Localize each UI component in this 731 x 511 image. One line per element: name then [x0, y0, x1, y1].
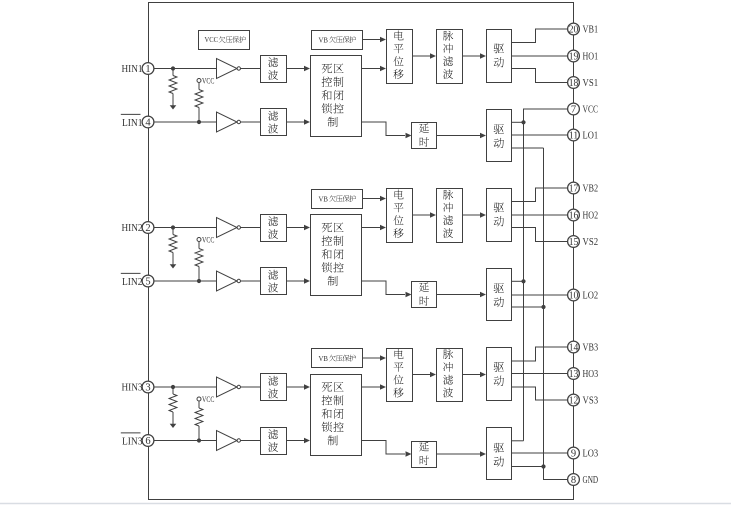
pin LO2 (pin 10)	[568, 289, 580, 301]
svg-text:18: 18	[569, 78, 579, 89]
wire buffer to filter ch2 high	[241, 227, 261, 229]
wire GND rail to pin 8	[544, 148, 568, 480]
pin VS2 (pin 15)	[568, 236, 580, 248]
wire filter to deadtime block ch2 high	[286, 227, 304, 229]
wire LIN3 pin to buffer	[148, 440, 217, 442]
block delay 延时 ch1	[412, 123, 437, 149]
wire pulse filter to high-side driver ch1	[462, 55, 480, 57]
svg-text:14: 14	[569, 343, 579, 354]
ground arrow HIN1 pull-down	[170, 105, 177, 109]
svg-text:VCC: VCC	[205, 35, 219, 44]
node junction on HIN2 wire	[171, 225, 175, 229]
wire delay to low-side driver ch3	[437, 453, 481, 455]
wire low driver to GND rail ch2	[512, 306, 544, 308]
block pulse filter 脉冲滤波 ch3	[437, 349, 463, 402]
wire buffer to filter ch3 low	[241, 440, 261, 442]
wire driver to VB3 pin	[512, 347, 568, 361]
svg-text:10: 10	[569, 291, 579, 302]
svg-text:15: 15	[569, 237, 579, 248]
pin VB2 (pin 17)	[568, 182, 580, 194]
svg-text:1: 1	[145, 64, 150, 75]
wire low driver to VCC rail ch3	[512, 440, 524, 442]
pin HIN2 (pin 2)	[142, 222, 154, 234]
wire buffer to filter ch1 high	[241, 68, 261, 70]
wire deadtime to delay ch3	[361, 441, 405, 455]
block filter 滤波 ch3 high	[261, 374, 287, 401]
wire level shifter to pulse filter ch2	[412, 214, 430, 216]
wire low driver to LO2 pin	[512, 294, 568, 296]
block deadtime+interlock 死区控制和闭锁控制 ch2	[311, 215, 362, 296]
wire filter to deadtime block ch2 low	[286, 280, 304, 282]
wire driver to HO3 pin	[512, 373, 568, 375]
pin LO1 (pin 11)	[568, 129, 580, 141]
VCC pull-up terminal ch2	[197, 238, 201, 242]
wire delay to low-side driver ch2	[437, 294, 481, 296]
svg-text:VB: VB	[319, 354, 329, 363]
block filter 滤波 ch1 low	[261, 109, 287, 136]
block VB undervoltage protection VB欠压保护 ch3	[312, 349, 363, 368]
svg-text:VCC: VCC	[202, 77, 214, 86]
buffer U1B (LIN1 schmitt inverter)	[217, 112, 238, 132]
wire HIN3 pin to buffer	[148, 386, 217, 388]
svg-text:VB: VB	[319, 35, 329, 44]
wire driver to VS1 pin	[512, 69, 568, 83]
block filter 滤波 ch1 high	[261, 56, 287, 83]
pin LIN2 (pin 5) with overline	[142, 275, 154, 287]
block level shifter 电平位移 ch3	[387, 349, 413, 402]
block delay 延时 ch3	[412, 442, 437, 468]
ground arrow HIN3 pull-down	[170, 424, 177, 428]
wire LIN1 pin to buffer	[148, 121, 217, 123]
pin HIN3 (pin 3)	[142, 381, 154, 393]
block VB undervoltage protection VB欠压保护 ch1	[312, 31, 363, 50]
wire HIN2 pin to buffer	[148, 227, 217, 229]
wire buffer to filter ch2 low	[241, 280, 261, 282]
wire low driver to VCC rail ch2	[512, 280, 524, 282]
wire level shifter to pulse filter ch3	[412, 374, 430, 376]
pin VCC (pin 7)	[568, 103, 580, 115]
svg-text:HO1: HO1	[583, 52, 599, 63]
block pulse filter 脉冲滤波 ch1	[437, 30, 463, 84]
wire VCC rail from pin 7	[524, 109, 568, 441]
svg-text:HIN3: HIN3	[122, 383, 143, 394]
svg-text:VB3: VB3	[583, 343, 599, 354]
wire level shifter to pulse filter ch1	[412, 55, 430, 57]
resistor pull-down on HIN1	[172, 69, 174, 76]
pin LIN1 (pin 4) with overline	[142, 116, 154, 128]
wire low driver to LO3 pin	[512, 452, 568, 454]
VCC pull-up terminal ch3	[197, 397, 201, 401]
svg-text:VCC: VCC	[202, 236, 214, 245]
svg-text:VS2: VS2	[583, 237, 599, 248]
pin VB1 (pin 20)	[568, 23, 580, 35]
block low-side driver 驱动 ch1 low	[487, 110, 512, 162]
node junction on HIN3 wire	[171, 385, 175, 389]
svg-text:2: 2	[145, 223, 150, 234]
resistor pull-up to VCC ch2	[198, 242, 200, 249]
pin GND (pin 8)	[568, 474, 580, 486]
wire pulse filter to high-side driver ch2	[462, 214, 480, 216]
wire deadtime to delay ch1	[361, 122, 405, 136]
pin VS3 (pin 12)	[568, 394, 580, 406]
wire pulse filter to high-side driver ch3	[462, 374, 480, 376]
svg-text:LO1: LO1	[583, 131, 599, 142]
svg-text:LIN2: LIN2	[122, 277, 143, 288]
svg-text:3: 3	[145, 383, 150, 394]
wire deadtime to level shifter ch1	[361, 68, 380, 70]
svg-text:5: 5	[145, 277, 150, 288]
resistor pull-up to VCC ch1	[198, 83, 200, 90]
wire driver to VB1 pin	[512, 29, 568, 43]
svg-text:8: 8	[571, 475, 576, 486]
wire filter to deadtime block ch3 high	[286, 386, 304, 388]
buffer U3B (LIN3 schmitt inverter)	[217, 431, 238, 451]
resistor pull-up to VCC ch3	[198, 401, 200, 408]
wire driver to VB2 pin	[512, 188, 568, 202]
buffer U2A (HIN2 schmitt inverter)	[217, 218, 238, 238]
svg-text:VS1: VS1	[583, 78, 599, 89]
wire low driver to VCC rail ch1	[512, 121, 524, 123]
node junction on LIN3 wire	[197, 438, 201, 442]
svg-text:19: 19	[569, 52, 579, 63]
svg-text:HO3: HO3	[583, 369, 599, 380]
svg-text:GND: GND	[583, 475, 599, 486]
block high-side driver 驱动 ch1	[487, 30, 512, 83]
block VCC undervoltage protection (VCC欠压保护)	[199, 31, 250, 50]
svg-text:17: 17	[569, 184, 579, 195]
svg-text:9: 9	[571, 449, 576, 460]
VCC pull-up terminal ch1	[197, 79, 201, 83]
block deadtime+interlock 死区控制和闭锁控制 ch1	[311, 56, 362, 137]
block high-side driver 驱动 ch2	[487, 189, 512, 242]
wire filter to deadtime block ch1 high	[286, 68, 304, 70]
node junction on HIN1 wire	[171, 66, 175, 70]
pin HIN1 (pin 1)	[142, 63, 154, 75]
block level shifter 电平位移 ch2	[387, 189, 413, 243]
buffer U3A (HIN3 schmitt inverter)	[217, 377, 238, 397]
resistor pull-down on HIN3	[172, 387, 174, 394]
block delay 延时 ch2	[412, 282, 437, 308]
footer separator line	[0, 503, 731, 505]
svg-text:6: 6	[145, 436, 150, 447]
IC outline rectangle	[149, 3, 574, 500]
pin VS1 (pin 18)	[568, 77, 580, 89]
buffer U1A (HIN1 schmitt inverter)	[217, 59, 238, 79]
svg-text:16: 16	[569, 211, 579, 222]
svg-text:LO2: LO2	[583, 291, 599, 302]
wire buffer to filter ch3 high	[241, 386, 261, 388]
svg-text:VCC: VCC	[583, 105, 599, 116]
pin LO3 (pin 9)	[568, 447, 580, 459]
wire driver to VS3 pin	[512, 387, 568, 400]
node junction on LIN2 wire	[197, 279, 201, 283]
svg-text:7: 7	[571, 105, 576, 116]
wire buffer to filter ch1 low	[241, 121, 261, 123]
wire deadtime to level shifter ch3	[361, 386, 380, 388]
svg-text:LO3: LO3	[583, 449, 599, 460]
svg-text:HIN1: HIN1	[122, 64, 143, 75]
svg-text:13: 13	[569, 369, 579, 380]
node junction on LIN1 wire	[197, 120, 201, 124]
pin LIN3 (pin 6) with overline	[142, 435, 154, 447]
svg-text:VB2: VB2	[583, 184, 599, 195]
block low-side driver 驱动 ch2 low	[487, 269, 512, 321]
wire delay to low-side driver ch1	[437, 135, 481, 137]
pin HO3 (pin 13)	[568, 368, 580, 380]
pin HO2 (pin 16)	[568, 209, 580, 221]
wire deadtime to delay ch2	[361, 281, 405, 295]
block low-side driver 驱动 ch3 low	[487, 428, 512, 480]
wire filter to deadtime block ch3 low	[286, 440, 304, 442]
svg-text:4: 4	[145, 118, 151, 129]
svg-text:VB: VB	[319, 194, 329, 203]
wire HIN1 pin to buffer	[148, 68, 217, 70]
wire low driver to LO1 pin	[512, 134, 568, 136]
block deadtime+interlock 死区控制和闭锁控制 ch3	[311, 375, 362, 456]
svg-text:HO2: HO2	[583, 211, 599, 222]
wire filter to deadtime block ch1 low	[286, 121, 304, 123]
wire LIN2 pin to buffer	[148, 280, 217, 282]
block VB undervoltage protection VB欠压保护 ch2	[312, 190, 363, 209]
svg-text:11: 11	[569, 131, 579, 142]
svg-text:LIN3: LIN3	[122, 436, 143, 447]
svg-text:12: 12	[569, 396, 579, 407]
wire deadtime to level shifter ch2	[361, 227, 380, 229]
svg-text:VCC: VCC	[202, 395, 214, 404]
block pulse filter 脉冲滤波 ch2	[437, 189, 463, 243]
block filter 滤波 ch3 low	[261, 428, 287, 455]
wire VB-UV to level shifter ch1	[362, 39, 380, 41]
svg-text:VS3: VS3	[583, 396, 599, 407]
block level shifter 电平位移 ch1	[387, 30, 413, 84]
svg-text:LIN1: LIN1	[122, 118, 143, 129]
wire VB-UV to level shifter ch3	[362, 357, 380, 359]
svg-text:VB1: VB1	[583, 25, 599, 36]
wire low driver to GND rail ch1	[512, 147, 544, 149]
svg-text:HIN2: HIN2	[122, 223, 143, 234]
wire driver to HO2 pin	[512, 214, 568, 216]
buffer U2B (LIN2 schmitt inverter)	[217, 271, 238, 291]
block filter 滤波 ch2 low	[261, 268, 287, 295]
block high-side driver 驱动 ch3	[487, 348, 512, 401]
svg-text:20: 20	[569, 25, 579, 36]
resistor pull-down on HIN2	[172, 228, 174, 235]
block filter 滤波 ch2 high	[261, 215, 287, 242]
wire VB-UV to level shifter ch2	[362, 198, 380, 200]
wire low driver to GND rail ch3	[512, 466, 544, 468]
pin VB3 (pin 14)	[568, 341, 580, 353]
wire driver to HO1 pin	[512, 55, 568, 57]
wire driver to VS2 pin	[512, 228, 568, 242]
pin HO1 (pin 19)	[568, 50, 580, 62]
ground arrow HIN2 pull-down	[170, 264, 177, 268]
